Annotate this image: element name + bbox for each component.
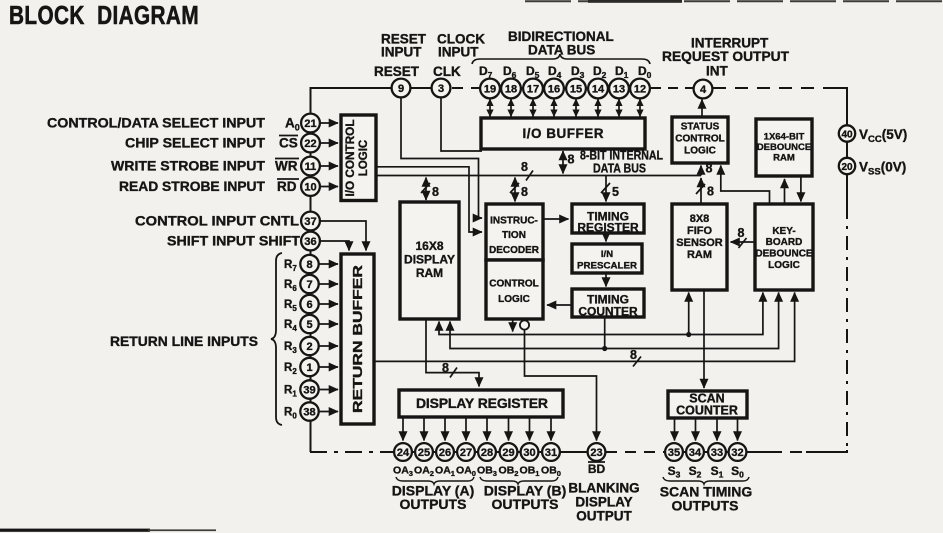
wire pin 11 into I/O control logic (321, 165, 339, 167)
wire data pin 13 to I/O buffer (618, 99, 620, 117)
brace under display B outputs (480, 477, 558, 484)
node CS with overline (279, 136, 298, 151)
chip boundary left edge through input pins (310, 88, 312, 452)
pin 22 CS (301, 134, 320, 153)
pin 13 D1 (609, 79, 629, 99)
svg-text:8: 8 (738, 226, 745, 240)
pin 8 R7 (300, 255, 318, 273)
1/N prescaler block (572, 244, 642, 273)
svg-text:35: 35 (668, 447, 680, 459)
wire pin 21 into I/O control logic (321, 122, 339, 124)
wire bus up into status control logic (700, 166, 702, 176)
control logic block (486, 260, 543, 319)
svg-text:I/O CONTROL: I/O CONTROL (345, 120, 357, 197)
wire pin3 clock down under I/O buffer (441, 97, 482, 151)
svg-text:STATUS: STATUS (681, 122, 720, 133)
svg-text:LOGIC: LOGIC (498, 294, 530, 305)
brace under display A outputs (396, 477, 474, 484)
wire timing counter to control logic (547, 304, 572, 306)
svg-text:30: 30 (523, 447, 535, 459)
pin 28 OB3 (478, 443, 496, 461)
pin 38 R0 (300, 402, 318, 420)
svg-text:INPUT: INPUT (438, 45, 479, 60)
svg-text:8: 8 (442, 361, 449, 375)
wire bus to 16X8 display RAM bidirectional (425, 178, 427, 201)
wire debounce RAM down into keyboard debounce (800, 177, 802, 202)
svg-text:39: 39 (303, 385, 315, 397)
wire control logic stub down to line1 (512, 319, 514, 332)
svg-text:26: 26 (439, 447, 451, 459)
wire display register to pin 27 (465, 417, 467, 441)
svg-text:INSTRUC-: INSTRUC- (490, 216, 538, 227)
svg-text:8-BIT INTERNAL: 8-BIT INTERNAL (580, 149, 663, 163)
svg-text:LOGIC: LOGIC (684, 146, 716, 157)
pin 30 OB1 (521, 443, 539, 461)
wire 8-bit internal data bus (375, 175, 701, 177)
svg-text:DEBOUNCE: DEBOUNCE (755, 249, 813, 260)
svg-text:DATA BUS: DATA BUS (528, 43, 595, 58)
svg-text:6: 6 (306, 299, 312, 311)
svg-text:DISPLAY: DISPLAY (404, 253, 455, 267)
svg-text:CONTROL: CONTROL (675, 134, 724, 145)
svg-text:FIFO: FIFO (687, 225, 712, 237)
svg-text:37: 37 (304, 216, 316, 228)
svg-text:DISPLAY REGISTER: DISPLAY REGISTER (416, 395, 548, 411)
wire R5 pin into return buffer (319, 303, 339, 305)
wire FIFO up to data bus (700, 178, 702, 204)
svg-text:BOARD: BOARD (766, 237, 803, 248)
svg-text:33: 33 (711, 447, 723, 459)
pin 37 CNTL (301, 212, 320, 231)
wire display register to pin 28 (486, 417, 488, 441)
pin 12 D0 (630, 79, 650, 99)
junction dot on line2 from timing counter (602, 346, 607, 351)
pin 7 R6 (300, 275, 318, 293)
svg-text:OUTPUTS: OUTPUTS (492, 496, 559, 512)
I/O buffer block (481, 118, 645, 149)
svg-text:CS: CS (279, 136, 298, 151)
pin 3 CLK (432, 79, 451, 98)
wire line1 branch up into FIFO sensor RAM (688, 293, 690, 335)
chip boundary dashed wire pin4 to top-right corner (713, 87, 830, 89)
wire slash on line3 (633, 357, 641, 367)
wire FIFO down to scan counter (703, 290, 705, 388)
svg-text:8: 8 (521, 185, 528, 199)
svg-text:8: 8 (630, 348, 637, 362)
svg-text:19: 19 (484, 84, 496, 96)
svg-text:23: 23 (590, 447, 602, 459)
pin 2 R3 (300, 337, 318, 355)
svg-text:8: 8 (432, 185, 439, 199)
pin 6 R5 (300, 295, 318, 313)
wire data pin 16 to I/O buffer (553, 99, 555, 117)
bottom-left page rule (0, 529, 150, 532)
chip boundary dash-dot bottom-left wire to pin 24 (310, 451, 395, 453)
chip boundary wire pin31 to pin23 (560, 451, 588, 453)
16X8 display RAM block (400, 202, 459, 319)
svg-text:12: 12 (634, 84, 646, 96)
svg-text:40: 40 (841, 130, 853, 141)
wire display RAM to display register 8 lines (426, 319, 479, 387)
svg-text:BLOCK DIAGRAM: BLOCK DIAGRAM (9, 0, 199, 30)
svg-text:RD: RD (277, 179, 297, 194)
svg-text:SHIFT INPUT SHIFT: SHIFT INPUT SHIFT (167, 234, 301, 249)
pin 4 INT (694, 80, 713, 99)
svg-text:BLANKING: BLANKING (568, 481, 639, 496)
svg-text:8: 8 (521, 160, 528, 174)
wire display register to pin 24 (402, 417, 404, 441)
svg-text:RETURN LINE INPUTS: RETURN LINE INPUTS (110, 334, 258, 349)
wire CNTL pin 37 into return buffer top (320, 221, 366, 251)
chip boundary wire behind scan pins 35-32 (666, 451, 747, 453)
svg-text:PRESCALER: PRESCALER (577, 261, 637, 272)
svg-text:24: 24 (397, 447, 410, 459)
wire slash on keyboard-FIFO link (739, 238, 747, 248)
wire slash on decoder bus (510, 183, 519, 193)
svg-text:REGISTER: REGISTER (577, 221, 639, 235)
svg-text:16X8: 16X8 (415, 239, 443, 253)
chip boundary top-right corner down to Vss pin (830, 88, 847, 205)
svg-text:INT: INT (706, 64, 729, 79)
wire line2 display RAM to keyboard debounce (450, 293, 779, 349)
wire display register to pin 25 (423, 417, 425, 441)
svg-text:RETURN BUFFER: RETURN BUFFER (350, 264, 365, 413)
svg-text:8: 8 (568, 153, 575, 167)
svg-text:READ STROBE INPUT: READ STROBE INPUT (119, 179, 266, 194)
wire data pin 18 to I/O buffer (510, 99, 512, 117)
chip boundary wire behind data pins 19-12 (481, 87, 649, 89)
pin 15 D3 (566, 79, 586, 99)
node WR with overline (275, 159, 299, 174)
wire data pin 12 to I/O buffer (639, 99, 641, 117)
svg-text:7: 7 (306, 279, 312, 291)
svg-text:LOGIC: LOGIC (768, 260, 800, 271)
pin 21 A0 (301, 114, 320, 133)
wire I/O buffer to data bus bidirectional (562, 151, 564, 174)
svg-text:4: 4 (700, 84, 707, 96)
svg-text:DISPLAY: DISPLAY (575, 495, 632, 510)
pin 25 OA2 (415, 443, 433, 461)
node BD with overline (588, 462, 606, 476)
svg-text:INPUT: INPUT (381, 45, 422, 60)
svg-text:DECODER: DECODER (489, 245, 540, 256)
pin 9 RESET (392, 79, 411, 98)
svg-text:REQUEST OUTPUT: REQUEST OUTPUT (662, 49, 790, 64)
svg-text:OUTPUTS: OUTPUTS (400, 496, 467, 512)
svg-text:9: 9 (398, 83, 404, 95)
wire display register to pin 29 (508, 417, 510, 441)
wire slash on display register feed (450, 368, 457, 378)
svg-text:16: 16 (548, 84, 560, 96)
svg-text:COUNTER: COUNTER (578, 305, 638, 319)
wire scan counter to pin 33 (716, 418, 718, 441)
wire instruction decoder to timing register (544, 218, 569, 220)
svg-text:1: 1 (306, 362, 312, 374)
svg-text:BD: BD (588, 462, 606, 476)
svg-text:29: 29 (502, 447, 514, 459)
pin 20 Vss (839, 158, 855, 174)
wire status control logic to INT pin 4 (701, 100, 703, 118)
wire display register to pin 31 (550, 417, 552, 441)
1X64-bit debounce RAM block (756, 119, 812, 176)
wire I/O control logic to instruction decoder (377, 167, 482, 232)
wire data pin 15 to I/O buffer (575, 99, 577, 117)
wire slash on timing register bus (601, 183, 610, 193)
pin 31 OB0 (542, 443, 560, 461)
wire bus to instruction decoder bidirectional (514, 178, 516, 202)
wire pin9 reset down and right into instruction decoder (401, 97, 482, 218)
wire scan counter to pin 35 (674, 418, 676, 441)
svg-text:CHIP SELECT INPUT: CHIP SELECT INPUT (125, 136, 266, 151)
wire timing counter down to line2 (604, 317, 606, 349)
svg-text:COUNTER: COUNTER (676, 404, 738, 418)
node RD with overline (277, 179, 299, 194)
chip boundary dashed wire pin3 to pin19 (452, 87, 480, 89)
svg-text:34: 34 (689, 447, 702, 459)
chip boundary dash-dot right edge (846, 205, 848, 452)
svg-text:31: 31 (545, 447, 557, 459)
wire pin 22 into I/O control logic (321, 142, 339, 144)
wire scan counter to pin 34 (695, 418, 697, 441)
wire data pin 19 to I/O buffer (489, 99, 491, 117)
svg-text:CONTROL: CONTROL (489, 279, 538, 290)
svg-text:OUTPUTS: OUTPUTS (672, 498, 739, 514)
wire R6 pin into return buffer (319, 283, 339, 285)
chip boundary wire behind display pins 24-31 (395, 451, 560, 453)
scan counter block (668, 391, 747, 418)
inverter bubble below control logic (520, 320, 529, 329)
timing register block (572, 204, 644, 235)
wire R7 pin into return buffer (319, 263, 339, 265)
wire SHIFT pin 36 into return buffer top (320, 241, 349, 251)
wire blanking output from bubble to pin 23 (525, 330, 597, 441)
pin 39 R1 (300, 380, 318, 398)
wire R2 pin into return buffer (319, 366, 339, 368)
wire timing register to prescaler (605, 233, 607, 242)
instruction decoder block (486, 204, 543, 260)
status control logic block (672, 117, 728, 163)
svg-text:CONTROL INPUT CNTL: CONTROL INPUT CNTL (135, 214, 299, 229)
wire R1 pin into return buffer (319, 389, 339, 391)
svg-text:KEY-: KEY- (772, 226, 795, 237)
pin 24 OA3 (394, 443, 412, 461)
svg-text:11: 11 (305, 161, 317, 173)
pin 18 D6 (501, 79, 521, 99)
wire data pin 17 to I/O buffer (532, 99, 534, 117)
pin 35 S3 (665, 443, 683, 461)
svg-text:RAM: RAM (687, 249, 712, 261)
wire keyboard debounce up into status control logic (721, 166, 770, 205)
svg-text:8X8: 8X8 (690, 213, 710, 225)
svg-text:OUTPUT: OUTPUT (576, 509, 632, 524)
wire keyboard debounce up into debounce RAM (784, 179, 786, 204)
8X8 FIFO sensor RAM block (672, 204, 727, 290)
pin 14 D2 (588, 79, 608, 99)
wire slash on display RAM bus (421, 183, 430, 193)
timing counter block (572, 289, 644, 319)
svg-text:CONTROL/DATA SELECT INPUT: CONTROL/DATA SELECT INPUT (47, 116, 266, 131)
pin 16 D4 (544, 79, 564, 99)
svg-text:I/N: I/N (601, 249, 613, 260)
wire line3 return buffer to keyboard debounce 8 lines (375, 293, 795, 362)
wire slash on FIFO bus link (696, 184, 705, 194)
svg-text:SENSOR: SENSOR (676, 237, 723, 249)
svg-text:RAM: RAM (773, 153, 795, 164)
svg-text:21: 21 (304, 118, 316, 130)
svg-text:DATA BUS: DATA BUS (593, 162, 646, 176)
svg-text:1X64-BIT: 1X64-BIT (764, 132, 805, 143)
wire R4 pin into return buffer (319, 323, 339, 325)
wire bus to timing register (605, 176, 607, 202)
pin 40 Vcc (839, 125, 855, 141)
return buffer block (341, 254, 374, 424)
svg-text:WR: WR (275, 159, 298, 174)
chip boundary wire pin9 to pin3 (410, 87, 432, 89)
keyboard debounce logic block (755, 204, 813, 290)
wire keyboard debounce to FIFO 8 lines (731, 241, 756, 243)
wire prescaler to timing counter (605, 273, 607, 287)
svg-text:5: 5 (612, 185, 619, 199)
wire scan counter to pin 32 (737, 418, 739, 441)
svg-text:15: 15 (570, 84, 582, 96)
pin 32 S0 (729, 443, 747, 461)
wire display register to pin 26 (444, 417, 446, 441)
svg-text:RAM: RAM (416, 266, 443, 280)
chip boundary top-left corner and top edge to pin 9 (311, 88, 394, 114)
svg-text:17: 17 (527, 84, 539, 96)
pin 33 S1 (708, 443, 726, 461)
pin 5 R4 (300, 315, 318, 333)
pin 1 R2 (300, 358, 318, 376)
svg-text:2: 2 (306, 341, 312, 353)
pin 27 OA0 (457, 443, 475, 461)
wire display register to pin 30 (529, 417, 531, 441)
svg-text:28: 28 (481, 447, 493, 459)
svg-text:5: 5 (306, 319, 312, 331)
wire data pin 14 to I/O buffer (597, 99, 599, 117)
svg-text:20: 20 (841, 162, 853, 173)
brace for return line inputs (271, 253, 282, 425)
chip boundary dashed wire pin12 to pin4 (651, 87, 694, 89)
pin 26 OA1 (436, 443, 454, 461)
svg-text:22: 22 (304, 138, 316, 150)
svg-text:38: 38 (303, 407, 315, 419)
pin 11 WR (301, 157, 320, 176)
svg-text:25: 25 (418, 447, 430, 459)
chip boundary dashed wire pin23 to pin35 (606, 451, 666, 453)
junction dot on line1 (686, 332, 691, 337)
svg-text:32: 32 (731, 447, 743, 459)
svg-text:DEBOUNCE: DEBOUNCE (757, 142, 811, 153)
pin 17 D5 (523, 79, 543, 99)
wire R0 pin into return buffer (319, 411, 339, 413)
pin 10 RD (301, 177, 320, 196)
pin 19 D7 (480, 79, 500, 99)
svg-text:I/O BUFFER: I/O BUFFER (523, 126, 604, 141)
pin 23 BD (588, 443, 606, 461)
display register block (399, 390, 563, 417)
chip boundary bottom-right corner to pin 32 (806, 450, 847, 452)
brace over data bus pins (472, 54, 650, 64)
svg-text:27: 27 (460, 447, 472, 459)
svg-text:14: 14 (592, 84, 605, 96)
svg-text:10: 10 (304, 182, 316, 194)
svg-text:RESET: RESET (374, 64, 420, 79)
svg-text:8: 8 (706, 162, 713, 176)
I/O control logic block (341, 115, 376, 201)
svg-text:13: 13 (613, 84, 625, 96)
svg-text:3: 3 (438, 83, 444, 95)
pin 36 SHIFT (301, 232, 320, 251)
wire bus slash mark (526, 171, 533, 181)
top page edge artifact (525, 0, 943, 2)
svg-text:8: 8 (707, 185, 714, 199)
svg-text:18: 18 (505, 84, 517, 96)
svg-text:CLK: CLK (433, 64, 461, 79)
svg-text:LOGIC: LOGIC (358, 140, 370, 176)
brace under scan timing outputs (663, 477, 749, 484)
wire R3 pin into return buffer (319, 345, 339, 347)
svg-text:WRITE STROBE INPUT: WRITE STROBE INPUT (111, 159, 266, 174)
wire line1 display RAM to FIFO and keyboard debounce (439, 293, 763, 335)
pin 29 OB2 (500, 443, 518, 461)
svg-text:36: 36 (304, 236, 316, 248)
svg-text:8: 8 (306, 259, 312, 271)
wire pin 10 into I/O control logic (321, 186, 339, 188)
svg-text:TION: TION (502, 230, 526, 241)
pin 34 S2 (686, 443, 704, 461)
